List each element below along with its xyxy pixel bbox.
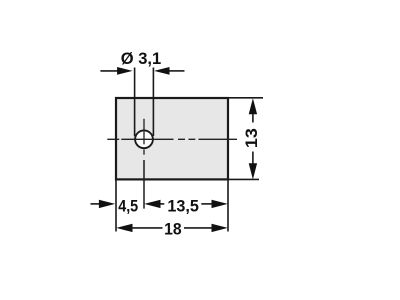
hole diameter extension line right bbox=[152, 68, 154, 137]
dim 4,5 outside arrow (points right) bbox=[91, 203, 101, 205]
top dim arrow left (points right) bbox=[100, 70, 119, 72]
dim 13,5 left arrow (points left) bbox=[159, 203, 165, 205]
dim 18 right arrow (points right) bbox=[184, 227, 214, 229]
dim 18 left arrow (points left) bbox=[116, 224, 132, 232]
svg-text:13,5: 13,5 bbox=[167, 197, 199, 216]
top dim arrow right (points left) bbox=[169, 70, 185, 72]
horizontal center line bbox=[107, 138, 237, 140]
part body (gray plate outline) bbox=[116, 98, 228, 179]
vertical center line bbox=[143, 119, 145, 155]
svg-text:18: 18 bbox=[164, 219, 182, 238]
dim 13 line lower segment + down arrow bbox=[252, 152, 254, 167]
right extension line below bbox=[227, 180, 229, 231]
svg-text:4,5: 4,5 bbox=[118, 197, 138, 216]
center line extension to dimension row bbox=[143, 160, 145, 209]
dim 13 line upper segment + up arrow bbox=[252, 112, 254, 123]
dim 13 top extension line bbox=[229, 97, 263, 99]
dim 13 bottom extension line bbox=[229, 178, 259, 180]
left extension line below bbox=[115, 180, 117, 231]
hole bbox=[135, 130, 153, 148]
svg-text:13: 13 bbox=[243, 128, 261, 148]
svg-text:Ø 3,1: Ø 3,1 bbox=[121, 49, 162, 68]
hole diameter extension line left bbox=[134, 68, 136, 137]
dim 13,5 right arrow (points right) bbox=[201, 203, 214, 205]
